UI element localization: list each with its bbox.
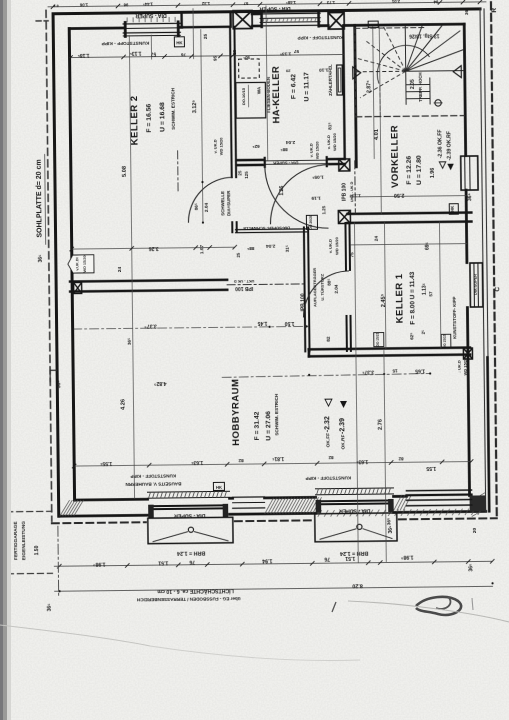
svg-text:1.18⁵: 1.18⁵ (77, 52, 90, 58)
svg-text:25: 25 (236, 252, 241, 257)
window W4 hatch band (147, 490, 229, 493)
beam dashdot over hobby opening (227, 283, 307, 286)
svg-text:WD 15/20: WD 15/20 (83, 255, 87, 272)
left wall step notch (50, 370, 57, 382)
wall inner right mid (465, 190, 469, 262)
level mark hobby FF (325, 399, 332, 406)
svg-text:1.55: 1.55 (426, 465, 436, 471)
svg-text:U. TÜRSTURZ: U. TÜRSTURZ (320, 273, 325, 300)
garage dashed top (7, 510, 52, 513)
washer box solid (236, 82, 266, 118)
svg-text:DIA-SUPER: DIA-SUPER (474, 274, 478, 295)
well 2 box (315, 513, 397, 542)
svg-text:125: 125 (244, 171, 249, 179)
wall inner top: W3 to chimney C2 (320, 24, 328, 27)
threshold sill corridor (236, 228, 307, 231)
svg-text:AUFLAGERTRÄGER: AUFLAGERTRÄGER (312, 268, 317, 307)
chimney flue C2 (328, 12, 344, 29)
svg-text:31⁵: 31⁵ (285, 245, 290, 252)
stair opening dashed bottom (356, 116, 464, 117)
window keller1 right (470, 263, 483, 307)
svg-text:UKT - UK D: UKT - UK D (350, 181, 354, 202)
svg-text:1.98⁵: 1.98⁵ (400, 554, 413, 560)
svg-text:36⁵: 36⁵ (47, 603, 53, 612)
svg-text:1.26: 1.26 (279, 186, 285, 196)
garage dashed left (6, 512, 9, 574)
wall outer bottom left segment (59, 515, 150, 516)
svg-text:20: 20 (472, 527, 478, 533)
chimney flue C1 (233, 10, 252, 28)
svg-text:25: 25 (237, 170, 242, 175)
keller1 left wall lower (346, 316, 348, 351)
wall B left face (343, 25, 345, 158)
svg-text:DO 20/20: DO 20/20 (309, 215, 313, 230)
svg-text:36⁵: 36⁵ (468, 563, 474, 572)
handwritten mark bottom right (416, 597, 461, 615)
window W3 end posts (260, 13, 263, 27)
window W1 end posts (124, 22, 127, 36)
svg-text:1.13⁵: 1.13⁵ (129, 50, 142, 56)
svg-text:2.04: 2.04 (204, 202, 210, 212)
svg-text:1.94: 1.94 (262, 557, 272, 563)
svg-text:R: R (491, 8, 498, 13)
svg-text:WD 15/20: WD 15/20 (315, 141, 320, 160)
stair walk arc (377, 45, 430, 83)
svg-text:2.50: 2.50 (394, 192, 405, 198)
keller2 top dim ticks (68, 53, 234, 59)
level mark vorkeller RF (447, 164, 454, 171)
svg-text:U = 17.80: U = 17.80 (416, 155, 423, 185)
svg-text:OK.RF: OK.RF (340, 434, 346, 449)
svg-text:1.19: 1.19 (311, 195, 321, 201)
svg-text:2⁵: 2⁵ (421, 330, 426, 335)
well 2 funnel (320, 529, 356, 539)
window W6 posts (316, 500, 322, 513)
stair opening dashed mid (379, 87, 381, 117)
stair winder treads solid (405, 25, 464, 71)
vert thin x441 (439, 222, 440, 348)
wall outer right thin line b (484, 9, 490, 511)
svg-text:FERTIGGARAGE: FERTIGGARAGE (13, 521, 19, 561)
svg-text:62⁵: 62⁵ (409, 333, 414, 340)
bottom chain2 dots (58, 590, 60, 592)
svg-text:76: 76 (181, 52, 187, 57)
svg-text:75: 75 (349, 252, 355, 258)
svg-text:4.82⁵: 4.82⁵ (153, 380, 166, 386)
svg-text:81⁵: 81⁵ (327, 122, 333, 130)
svg-text:4.01: 4.01 (374, 129, 380, 140)
svg-text:KELLER 1: KELLER 1 (394, 273, 406, 323)
svg-text:IPB 100: IPB 100 (235, 285, 253, 291)
keller2 dim line y247 (72, 247, 235, 249)
svg-text:C: C (494, 287, 501, 292)
wall A lower stub (231, 222, 233, 232)
svg-text:v. UK.D: v. UK.D (326, 135, 331, 149)
scan left edge dark streak (0, 0, 3, 720)
level mark vorkeller FF (439, 162, 446, 169)
axis dashdot below garage (57, 526, 60, 598)
wall inner left (69, 29, 74, 500)
svg-text:1.98⁵: 1.98⁵ (92, 561, 105, 567)
svg-text:1.45: 1.45 (257, 320, 267, 326)
svg-text:1.13⁵: 1.13⁵ (349, 192, 361, 198)
bottom-right corner wall blob (470, 495, 486, 511)
sole plate dashed line right (491, 2, 497, 518)
wall outer right thin line a (480, 9, 486, 511)
chimney box at wall B foot (339, 159, 350, 171)
sohlplatte underline (45, 154, 46, 244)
svg-text:1.32: 1.32 (201, 1, 210, 6)
svg-text:DIA=SUPER: DIA=SUPER (226, 190, 231, 216)
xbox keller1 top wall left end (338, 210, 350, 223)
window W4 posts (148, 505, 154, 518)
keller1 dim line y246 (351, 244, 467, 245)
keller2 bottom wall line1 (70, 280, 227, 282)
bottom chain1 ticks (57, 559, 494, 568)
section dashdot stub (177, 151, 179, 194)
window W1 sill hatch (126, 17, 128, 22)
well 2 circle (357, 524, 362, 529)
wall inner bottom seg2 (230, 497, 233, 500)
svg-text:1.51: 1.51 (345, 555, 355, 561)
svg-text:HOBBYRAUM: HOBBYRAUM (230, 378, 242, 445)
keller1 bottom wall top face (309, 348, 470, 350)
svg-text:-2.36 OK.FF: -2.36 OK.FF (437, 129, 443, 158)
stair center circle (435, 100, 441, 106)
svg-text:2.76: 2.76 (378, 419, 384, 430)
svg-text:v. UK.D: v. UK.D (328, 239, 333, 253)
svg-text:2.04: 2.04 (334, 284, 339, 293)
svg-text:IPB 100: IPB 100 (341, 183, 347, 201)
svg-text:3.12⁵: 3.12⁵ (192, 100, 198, 114)
svg-text:15: 15 (392, 368, 398, 373)
svg-text:96: 96 (123, 2, 128, 7)
svg-text:F = 8.00 U = 11.43: F = 8.00 U = 11.43 (409, 271, 417, 324)
svg-text:94: 94 (433, 0, 438, 4)
keller2 dim line y247 ticks (70, 245, 237, 251)
keller1 do1515 left (374, 333, 384, 347)
wall inner top: W1 to hollow box (180, 26, 181, 29)
wall inner bottom seg3 hatched (265, 496, 316, 499)
svg-text:1.63⁵: 1.63⁵ (190, 459, 203, 465)
svg-text:F = 16.56: F = 16.56 (146, 103, 153, 132)
wall A keller2/ha-keller (230, 27, 232, 177)
well 1 box (148, 517, 233, 543)
svg-text:82: 82 (326, 336, 332, 342)
svg-text:1.73: 1.73 (326, 0, 335, 5)
svg-text:57: 57 (428, 291, 433, 297)
stair opening dashed top (355, 27, 426, 30)
svg-text:HK: HK (450, 206, 455, 212)
svg-text:KUNSTSTOFF- KIPP: KUNSTSTOFF- KIPP (452, 296, 457, 338)
svg-text:v. UK.D: v. UK.D (212, 139, 217, 153)
hobby window dim line y464 (74, 462, 471, 467)
svg-text:5.08: 5.08 (122, 166, 128, 177)
wall inner right upper (vorkeller) (464, 24, 465, 155)
svg-text:v.UK.DI: v.UK.DI (75, 257, 79, 270)
keller2 vertical dim line (129, 35, 134, 498)
svg-text:KUNSTSTOFF - KIPP: KUNSTSTOFF - KIPP (298, 35, 344, 41)
svg-text:36⁵: 36⁵ (464, 8, 469, 15)
hobby y464 ticks (72, 459, 473, 468)
section triangle right (453, 66, 461, 78)
wall outer right thick lower (487, 357, 489, 511)
svg-text:BRH = 1.24: BRH = 1.24 (177, 550, 205, 556)
svg-text:TREPP. HOCH: TREPP. HOCH (418, 72, 423, 102)
xbox keller1 bottom right (463, 348, 472, 359)
svg-text:F = 31.42: F = 31.42 (254, 411, 261, 440)
ha-keller bottom wall line2 (238, 164, 264, 167)
zaehlertafel plate (337, 65, 343, 95)
HK box top (174, 37, 184, 47)
hobby vert dim line x384 (384, 351, 386, 562)
svg-text:3.37⁵: 3.37⁵ (144, 323, 157, 329)
wall inner top: stair room (344, 24, 464, 25)
svg-text:1.96: 1.96 (430, 168, 436, 179)
svg-text:69⁵: 69⁵ (425, 241, 431, 250)
svg-text:1.25: 1.25 (321, 205, 326, 214)
svg-text:2.05: 2.05 (410, 79, 416, 89)
svg-text:86⁵: 86⁵ (194, 203, 199, 210)
wall outer bottom right segment (394, 511, 486, 512)
svg-text:24: 24 (117, 266, 123, 272)
beam dashdot wall B extension (354, 161, 357, 213)
sole plate dashed line bottom (52, 522, 146, 523)
keller1 left wall upper (344, 223, 347, 270)
hakeller top dim line (233, 54, 344, 55)
svg-text:KUNSTSTOFF - KIPP: KUNSTSTOFF - KIPP (130, 473, 176, 479)
svg-text:KUNSTSTOFF - KIPP: KUNSTSTOFF - KIPP (306, 475, 352, 481)
bottom dim chain2 (55, 586, 493, 591)
svg-text:95: 95 (213, 55, 218, 60)
svg-text:F = 12.26: F = 12.26 (406, 156, 413, 185)
page curl curve 1 (348, 601, 509, 622)
svg-text:1.50: 1.50 (284, 320, 294, 326)
wall hatch marks (60, 492, 486, 521)
keller1 do1515 right (441, 334, 451, 348)
window W5 small frame (233, 496, 265, 498)
svg-text:U = 11.17: U = 11.17 (303, 72, 310, 102)
svg-text:OK.FF: OK.FF (325, 433, 331, 448)
svg-text:36⁵: 36⁵ (127, 338, 132, 345)
svg-text:1.50: 1.50 (34, 545, 40, 555)
svg-text:36⁵: 36⁵ (467, 192, 473, 201)
ha-keller door sill (264, 159, 328, 162)
svg-text:VORKELLER: VORKELLER (389, 125, 401, 188)
svg-text:IPB 100: IPB 100 (300, 293, 306, 311)
svg-text:DO 15/15: DO 15/15 (443, 334, 447, 348)
svg-text:-2.39 OK.RF: -2.39 OK.RF (446, 131, 452, 160)
svg-text:DIA-SUPER- SCHWELLE: DIA-SUPER- SCHWELLE (243, 226, 290, 232)
door arc passage (270, 165, 330, 225)
svg-text:DIA - SUPER: DIA - SUPER (273, 160, 298, 165)
svg-text:2.45⁵: 2.45⁵ (381, 293, 387, 307)
stair opening dashed left (355, 28, 356, 117)
svg-text:36⁵: 36⁵ (38, 254, 44, 263)
garage dashed bottom (7, 572, 52, 575)
svg-text:v. UK.D: v. UK.D (309, 143, 314, 157)
svg-text:57: 57 (243, 1, 248, 6)
svg-text:SCHWIM. ESTRICH: SCHWIM. ESTRICH (170, 87, 175, 130)
keller2 top dim line (70, 56, 233, 58)
svg-text:KUNSTSTOFF - KIPP: KUNSTSTOFF - KIPP (101, 40, 149, 47)
svg-text:88⁵: 88⁵ (327, 278, 332, 285)
svg-text:DO 15/15: DO 15/15 (376, 333, 380, 347)
svg-text:1.51: 1.51 (158, 559, 168, 565)
hollow wall box between W1 and chimney (182, 12, 231, 28)
svg-text:-2.32: -2.32 (324, 416, 331, 432)
svg-text:HK: HK (176, 40, 183, 45)
svg-text:1.48⁵: 1.48⁵ (286, 0, 296, 5)
window W6 hatch band (315, 487, 393, 490)
column xbox keller2 bottom left (74, 282, 82, 293)
scan tick right (472, 598, 473, 610)
stair lower flight treads (406, 83, 430, 85)
vert thin x356 (354, 223, 358, 563)
svg-text:2.04: 2.04 (266, 243, 276, 249)
svg-text:57: 57 (293, 49, 299, 54)
svg-text:13 Stg. 18/26: 13 Stg. 18/26 (409, 32, 440, 38)
svg-text:UKT - UK D: UKT - UK D (234, 279, 255, 283)
svg-text:3.37⁵: 3.37⁵ (361, 369, 374, 375)
keller2 bottom wall line2 (70, 290, 227, 292)
flag callout left wall (68, 255, 94, 273)
wall C lobby left (304, 227, 305, 351)
svg-text:1.55⁵: 1.55⁵ (99, 460, 112, 466)
door arc ha-keller (265, 165, 329, 229)
keller1/vorkeller wall top face (347, 213, 471, 214)
handwritten tick 1 (332, 602, 336, 612)
svg-text:36⁵: 36⁵ (386, 518, 392, 526)
hobby dashdot y327 (73, 326, 308, 329)
svg-text:1.13⁵: 1.13⁵ (280, 51, 292, 57)
svg-text:82: 82 (328, 455, 334, 460)
sole plate dashed line left (46, 10, 52, 521)
window W1 top frame (123, 22, 180, 25)
section triangle left (353, 67, 361, 79)
niche top wall (368, 21, 378, 28)
window W3 frame (260, 12, 320, 15)
svg-text:WD 15/20: WD 15/20 (218, 137, 223, 156)
page curl curve 2 (0, 625, 150, 646)
wall outer left (53, 14, 59, 516)
svg-text:1.07: 1.07 (199, 245, 205, 255)
svg-text:BAUSEITS V. BAUHERRN: BAUSEITS V. BAUHERRN (125, 481, 182, 487)
svg-text:U = 16.68: U = 16.68 (159, 102, 166, 132)
svg-text:76: 76 (324, 556, 330, 562)
small dashed box hakeller (239, 59, 260, 78)
well 1 funnel (153, 532, 188, 542)
svg-text:88⁵: 88⁵ (247, 246, 254, 251)
svg-text:F = 6.42: F = 6.42 (290, 74, 297, 99)
wall inner top: left of window W1 (69, 27, 123, 30)
svg-text:WD 15/20: WD 15/20 (462, 357, 467, 376)
keller1/vorkeller wall bottom face (347, 222, 471, 223)
wall B right face (stair room) (355, 25, 357, 166)
DO 20/20 box (306, 215, 317, 229)
lobby y375 dots (308, 374, 310, 376)
svg-text:2.04: 2.04 (285, 139, 295, 145)
svg-text:WD 15/20: WD 15/20 (332, 132, 337, 151)
page curl curve 3 (150, 646, 360, 660)
svg-text:-2.39: -2.39 (339, 418, 346, 434)
wall top seg chimney-W3 (252, 13, 260, 16)
svg-text:EIGENLEISTUNG: EIGENLEISTUNG (21, 521, 27, 561)
top dim chain ticks (51, 0, 482, 9)
svg-text:1.65: 1.65 (415, 368, 425, 374)
vert thin x270 (266, 6, 268, 160)
keller1 bottom wall bottom face (309, 355, 470, 357)
hobby dashdot y327 dots (72, 328, 74, 330)
svg-text:1.44⁵: 1.44⁵ (143, 2, 153, 7)
svg-text:4.26: 4.26 (120, 399, 126, 410)
svg-text:3.26: 3.26 (149, 245, 159, 251)
svg-text:36⁵: 36⁵ (56, 380, 62, 389)
wall inner right lower (467, 308, 469, 496)
window W6 heavy line (319, 499, 391, 502)
window W7 dark band (406, 489, 471, 492)
svg-text:1.05⁵: 1.05⁵ (312, 174, 324, 180)
wall inner bottom seg4 (394, 495, 407, 498)
svg-text:DO.10/15: DO.10/15 (241, 87, 246, 105)
window vorkeller right (461, 156, 478, 190)
keller1 bottom wall left corner (308, 349, 311, 356)
svg-text:8.20: 8.20 (352, 582, 363, 588)
svg-text:SCHWIM. ESTRICH: SCHWIM. ESTRICH (274, 393, 279, 436)
lobby dashdot y375 (222, 374, 430, 378)
wall inner bottom seg1 (75, 498, 148, 502)
svg-text:SCHWELLE: SCHWELLE (220, 191, 225, 216)
svg-text:62⁵: 62⁵ (252, 144, 259, 149)
svg-text:24: 24 (374, 236, 380, 242)
level mark hobby RF (340, 401, 347, 408)
scan left edge shadow (0, 0, 7, 720)
svg-text:1.13⁵: 1.13⁵ (422, 282, 428, 295)
svg-text:HK: HK (216, 485, 222, 490)
wall outer top (53, 9, 480, 14)
stair dim line (373, 27, 374, 159)
ha-keller bottom wall line1 (238, 159, 264, 162)
svg-text:82: 82 (238, 457, 244, 463)
svg-text:WD 15/20: WD 15/20 (334, 236, 339, 255)
svg-text:HA-KELLER: HA-KELLER (271, 66, 283, 124)
door arc keller 1 (303, 271, 350, 318)
well 1 circle (188, 527, 193, 532)
ha-keller door posts (264, 158, 266, 167)
svg-text:88⁵: 88⁵ (280, 147, 287, 152)
vert thin x155 window (150, 35, 152, 59)
vert thin x197 (192, 9, 195, 59)
wall outer bottom mid segment (230, 512, 316, 516)
svg-text:2.87⁵: 2.87⁵ (366, 80, 372, 93)
svg-text:25: 25 (203, 33, 209, 39)
svg-text:1.06: 1.06 (79, 2, 88, 7)
svg-text:2.01: 2.01 (391, 0, 400, 4)
svg-text:WA: WA (256, 86, 261, 94)
svg-text:U = 27.06: U = 27.06 (265, 411, 272, 441)
vorkeller vert dim x383 (379, 27, 381, 214)
sole plate dashed stub top left (36, 20, 48, 22)
HK box vorkeller (449, 204, 458, 215)
window W3 hatch (263, 18, 265, 22)
HK box window W4 (213, 482, 224, 490)
keller1 vert dim x386 (384, 223, 385, 349)
svg-text:1.81⁵: 1.81⁵ (271, 455, 284, 461)
bottom dim chain1 (54, 561, 492, 566)
door arc keller 2 (188, 177, 234, 223)
svg-text:76: 76 (189, 559, 195, 565)
svg-text:1.10: 1.10 (319, 67, 329, 73)
